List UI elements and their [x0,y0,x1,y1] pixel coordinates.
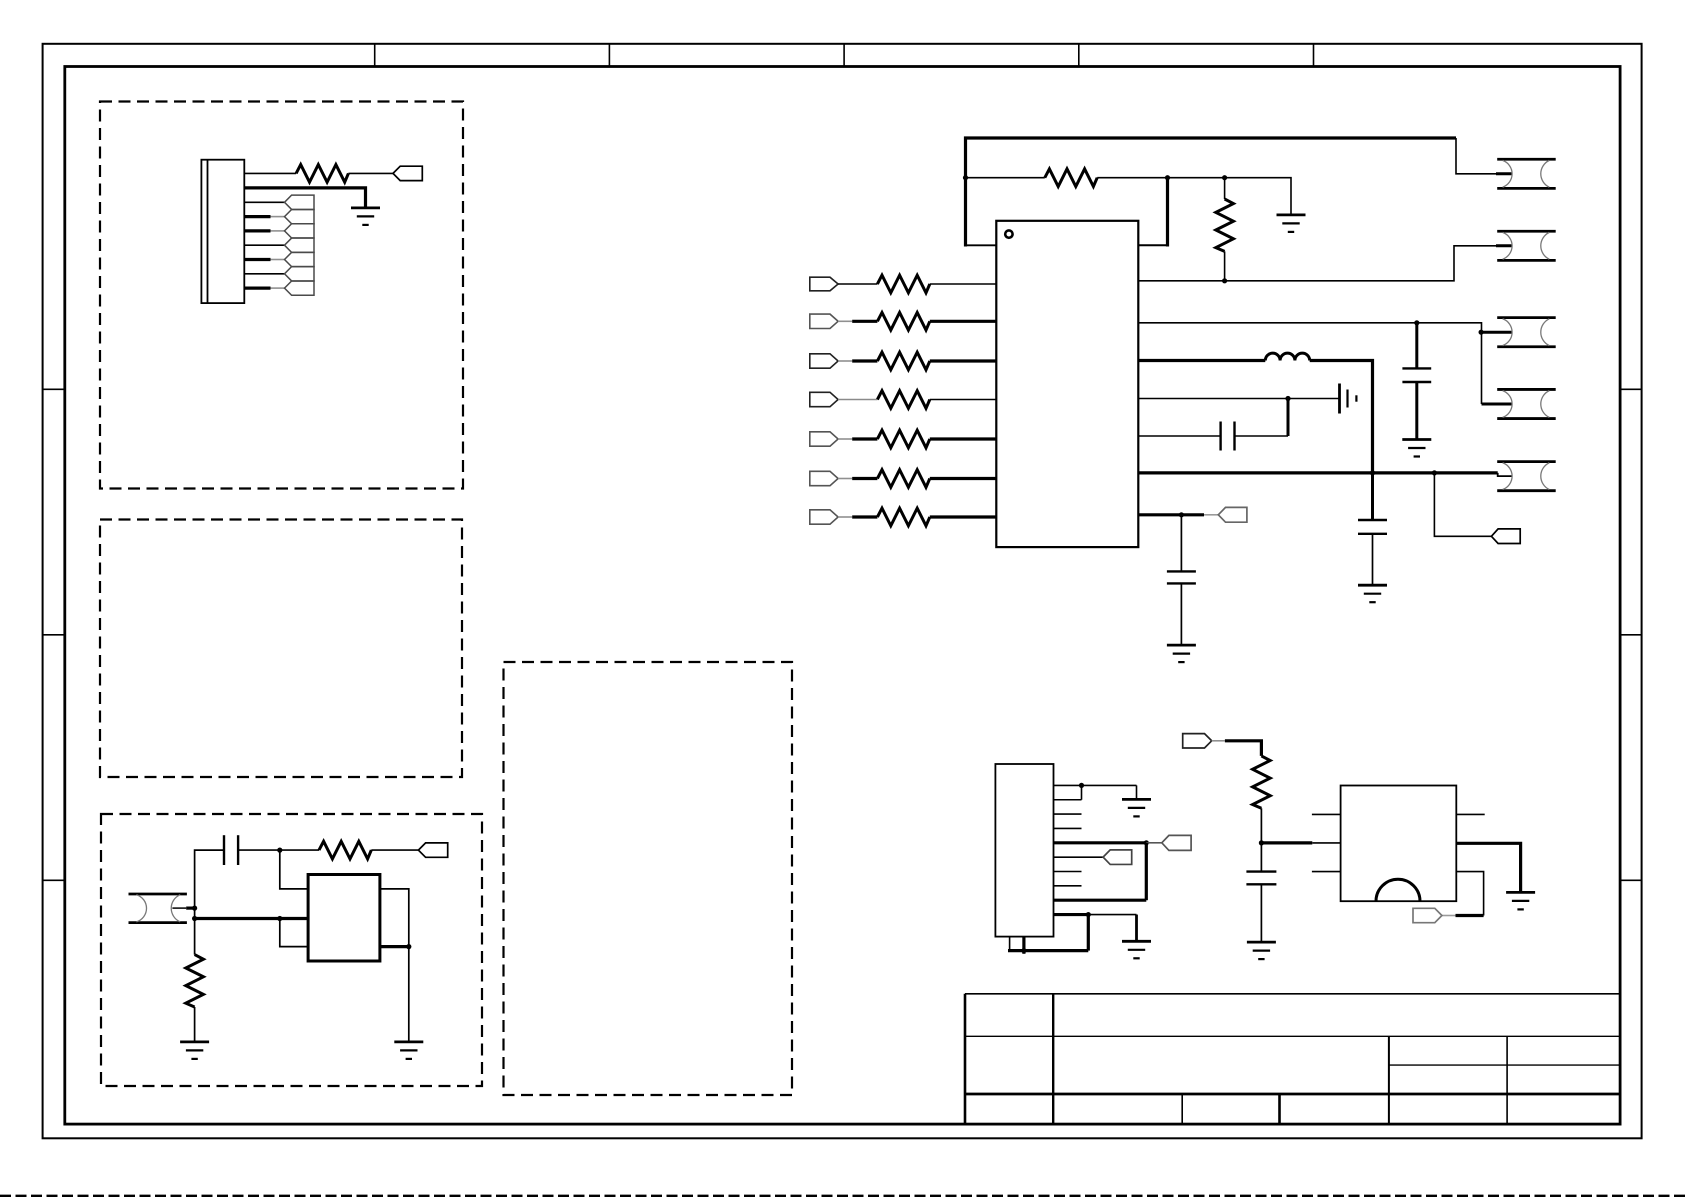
region box 3 (bottom-left dashed) [101,814,482,1086]
wire J3 bottom stub bold [1022,937,1025,954]
ground (U2 out) [1506,892,1535,909]
wire J1 pin9 [244,287,284,290]
wire p1-p2 link [1081,785,1083,799]
wire riser C2 (bold) [1287,399,1290,437]
resistor R8 [877,430,929,448]
ground (top right) [1277,215,1306,232]
connector J3 [995,764,1053,937]
zone ticks left [43,389,65,880]
audio jack JK3 [1497,318,1556,347]
net flag stack (J1 pins 3-9) [285,195,315,295]
audio jack JK2 [1497,231,1556,260]
wire J1 pin8 [244,273,284,275]
buzzer cutout arc [1376,879,1420,901]
net flag (buzzer ctrl, grey) [1413,908,1442,922]
wire R3 bottom lead [1224,251,1226,280]
capacitor C3 [1402,368,1431,382]
resistor R11 [319,841,371,859]
wire U1 pin to loop [966,244,997,246]
wire U1 to sideways ground [1138,398,1339,400]
wire flag stub (bold) [1456,914,1484,917]
junction (p1/p2) [1079,783,1084,788]
wire R6 to U1 (bold) [930,359,997,362]
junction (C3 tap) [1414,320,1419,325]
junction (R13/C6 node) [1259,840,1264,845]
audio jack JK5 [1497,462,1556,491]
zone ticks right [1620,389,1642,880]
junction (loop/R2) [963,175,968,180]
wire U2 left pin3 [1312,871,1341,873]
ground (J3 p10) [1122,941,1151,958]
wire to R2 [966,177,1045,179]
net flag in4 [810,392,838,406]
ground (below C4) [1358,585,1387,602]
wire C2 to riser [1235,435,1289,437]
wire C4 to ground [1372,534,1374,585]
wire R8 to U1 (bold) [930,437,997,440]
capacitor C4 [1358,520,1387,534]
wire stub to flag [1204,514,1218,516]
region box 4 (center dashed) [504,662,793,1095]
junction (flag tap) [1432,470,1437,475]
wire in4 [838,399,877,401]
wire Y1 right bottom (bold) [380,945,409,948]
net flag (box1 right) [393,166,422,180]
net flag (J3 p6) [1103,850,1132,865]
ground (below C3) [1402,440,1431,457]
wire R13 to node [1260,808,1262,843]
connector J1 [201,160,244,303]
wire J1 pin7 [244,258,284,261]
wire R3 top lead [1224,178,1226,199]
wire C3 stem bottom (bold) [1415,382,1418,440]
junction (p10 node) [1086,912,1091,917]
resistor R6 [877,352,929,370]
junction (C5 tap) [1179,512,1184,517]
wire R10 to U1 (bold) [930,515,997,518]
resistor R10 [877,508,929,526]
wire U2 pin to flag [1456,872,1483,916]
wire U1 out8 (bold) [1138,513,1204,516]
resistor R13 (vertical) [1253,756,1271,808]
wire U2 right pin1 [1456,813,1484,815]
wire U2 left pin1 [1312,813,1341,815]
resistor R9 [877,470,929,488]
wire to ground right [408,947,410,1042]
wire U1 to L1 (bold) [1138,359,1265,362]
wire R2 to ground corner [1097,178,1291,215]
wire in5 [838,438,877,440]
wire p5-p9 link (bold) [1145,843,1148,900]
capacitor C5 [1167,571,1196,583]
junction (R3 bottom) [1222,278,1227,283]
dashed strip bottom of sheet [0,1195,1685,1197]
net flag (J3 p5) [1162,835,1191,850]
wire C5 to ground [1180,583,1182,645]
wire U1 out2 to jack JK2 [1138,246,1496,281]
resistor R5 [877,313,929,331]
wire R11 to flag [371,849,418,851]
wire jack JK4 stub (bold) [1482,403,1513,406]
net flag (out8, grey) [1218,507,1247,522]
net flag (box3) [418,843,447,857]
wire C1 to node [238,849,319,851]
wire J1 pin2 ground bus [244,188,365,208]
oscillator module Y1 [308,875,380,962]
wire in6 [838,478,877,480]
resistor R3 (vertical) [1216,199,1234,251]
wire J3 p3 [1054,813,1082,815]
wire U1 out3 net [1138,323,1481,404]
wire jog to crystal pin3 [280,919,308,947]
junction (C1/R11 node) [277,848,282,853]
junction (jack node) [192,906,197,911]
wire R9 to U1 (bold) [930,477,997,480]
wire J3 bottom stub thin [1009,937,1011,951]
wire J1 pin5 [244,229,284,232]
wire Y1 right top [380,889,409,947]
buzzer driver U2 [1341,786,1457,902]
wire R1 to flag [348,172,393,174]
junction (Y1 out) [406,944,411,949]
wire p5 flag stub [1146,842,1162,844]
ground (J3 p1) [1122,799,1151,816]
wire jack JK1 stub (bold) [1496,172,1512,175]
wire in7 [838,516,877,518]
wire C6 stem [1260,843,1262,872]
region box 2 (mid-left dashed) [100,520,462,778]
junction (R3 top) [1222,175,1227,180]
wire J1 pin1 to R1 [244,172,296,174]
junction (jack JK3 tap) [1479,330,1484,335]
wire J3 p8 [1054,885,1082,887]
ground (below C5) [1167,645,1196,662]
junction (bottom bus) [1021,948,1026,953]
resistor R1 [296,165,348,183]
title block [965,994,1620,1124]
ground (box1) [351,208,380,225]
resistor R2 [1045,169,1097,187]
wire ground stem p1 [1136,785,1138,799]
wire C4 stem (bold) [1371,473,1374,520]
net flag in6 [810,471,838,485]
net flag (supply) [1183,734,1212,748]
wire ground stem p10 (bold) [1135,915,1138,942]
wire L1 to net5 (bold) [1310,361,1373,473]
audio jack J2 [129,894,195,923]
ground (box3 right) [394,1042,423,1059]
wire flag drop [1434,473,1491,536]
junction (crystal in) [277,916,282,921]
net flag (net5) [1491,529,1520,544]
region box 1 (top-left dashed) [100,102,463,489]
wire J3 p7 [1054,871,1082,873]
junction (p5 node) [1144,840,1149,845]
wire J3 p4 [1054,827,1082,829]
wire J1 pin3 [244,201,284,203]
wire U2 out (bold) [1456,843,1520,892]
wire U1 out7 to jack JK5 (bold) [1138,471,1497,474]
capacitor C2 [1221,422,1235,451]
wire R5 to U1 (bold) [930,320,997,323]
audio jack JK1 [1497,159,1556,188]
wire jack JK2 stub (bold) [1496,244,1512,247]
wire stub into U1 pin (bold riser) [1166,178,1169,247]
wire jack JK3 stub (bold) [1481,331,1512,334]
wire supply to R13 (bold) [1225,741,1262,756]
wire J3 p5 (bold) [1054,841,1147,844]
junction (net to crystal) [192,916,197,921]
junction (C4 tap) [1370,470,1375,475]
wire R7 to U1 [930,399,997,401]
pin-1 mark U1 [1005,230,1012,237]
wire in1 [838,283,877,285]
net flag in5 [810,432,838,446]
junction (R2/U1 stub) [1165,175,1170,180]
wire node down to crystal pin1 [280,850,308,889]
wire C3 stem top (bold) [1415,323,1418,369]
wire jack node up to C1 [195,850,224,918]
wire J1 pin4 [244,215,284,218]
ground (sideways) [1340,384,1357,414]
resistor R12 (vertical) [186,955,204,1007]
wire J3 p6 [1054,856,1104,858]
wire flag stub grey [1442,915,1456,917]
net flag in3 [810,354,838,368]
resistor R4 [877,275,929,293]
wire in2 [838,320,877,322]
ground (below C6) [1247,942,1276,959]
wire stub into U1 pin [1138,244,1169,246]
wire supply stub [1212,740,1225,742]
wire jack to crystal (bold) [195,917,309,920]
wire jog into JK5 [1498,473,1512,476]
junction (C2 tap) [1285,396,1290,401]
wire R4 to U1 [930,283,997,285]
inductor L1 [1265,353,1309,360]
wire bottom bus (bold) [1008,949,1088,952]
wire U1 to C2 [1138,435,1220,437]
wire node to U2 (bold then thin) [1261,841,1340,844]
wire p10 riser (bold) [1087,915,1090,951]
wire J1 pin6 [244,244,284,246]
audio jack JK4 [1497,389,1556,418]
net flag in7 [810,510,838,524]
wire J3 p10 (bold) [1054,913,1089,916]
wire J3 p2 [1054,799,1082,801]
main IC U1 [996,221,1138,547]
wire J3 p1 [1054,784,1137,786]
wire R12 to ground [194,1007,196,1042]
net flag in1 [810,277,838,291]
wire p10 to ground [1088,914,1136,916]
zone ticks top [375,44,1314,67]
wire feedback loop top (bold) [966,138,1457,247]
wire J3 p9 (bold) [1054,899,1147,902]
resistor R7 [877,391,929,409]
wire node down to R12 [194,919,196,955]
capacitor C6 [1246,872,1276,885]
wire to jack JK1 [1456,138,1496,174]
wire in3 [838,360,877,362]
capacitor C1 [224,835,238,865]
wire C6 to ground [1260,884,1262,942]
ground (box3 left) [180,1042,209,1059]
net flag in2 [810,314,838,328]
wire C5 stem [1180,515,1182,572]
